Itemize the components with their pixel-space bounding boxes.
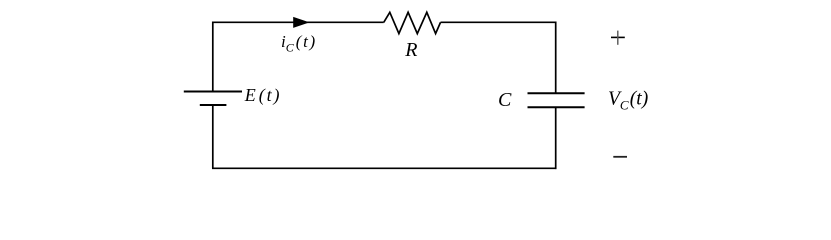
wire top-right segment xyxy=(441,21,556,23)
resistor R xyxy=(384,12,441,33)
wire left vertical upper xyxy=(212,22,214,92)
svg-text:C: C xyxy=(498,89,512,111)
svg-text:R: R xyxy=(404,39,417,61)
battery E(t) short plate xyxy=(200,104,227,106)
wire top-left segment xyxy=(213,21,384,23)
capacitor C bottom plate xyxy=(528,106,585,108)
wire left vertical lower xyxy=(212,105,214,168)
wire bottom segment xyxy=(212,167,557,169)
wire right vertical upper xyxy=(555,22,557,94)
wire right vertical lower xyxy=(555,107,557,169)
svg-text:E(t): E(t) xyxy=(244,85,282,106)
svg-text:iC(t): iC(t) xyxy=(281,32,317,55)
plus sign xyxy=(611,36,625,38)
capacitor C top plate xyxy=(528,92,585,94)
current direction arrow xyxy=(293,17,309,28)
svg-text:VC(t): VC(t) xyxy=(608,89,648,113)
minus sign xyxy=(613,156,627,158)
battery E(t) long plate xyxy=(184,91,242,93)
